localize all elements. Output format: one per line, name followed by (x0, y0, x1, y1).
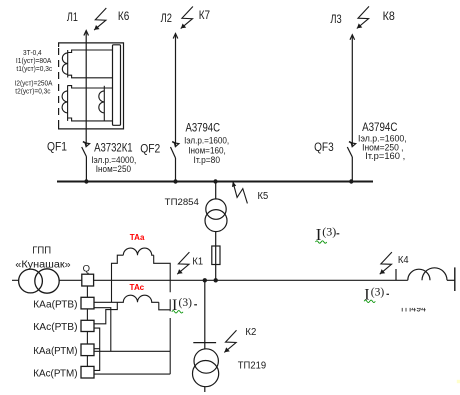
svg-text:Iэл.р.=1600,: Iэл.р.=1600, (184, 136, 229, 146)
relay box KAa(PTM) (81, 344, 94, 356)
svg-text:А3732К1: А3732К1 (94, 141, 133, 155)
CT TAa loop (112, 248, 171, 280)
upper trip element (62, 50, 112, 78)
svg-text:Л3: Л3 (330, 14, 341, 26)
svg-text:К1: К1 (192, 256, 203, 267)
vertical node wire at x=170 (169, 280, 171, 318)
wire TAa left below line (111, 280, 113, 302)
wire box1 to CT TAc (94, 301, 117, 303)
feeder line L1 (vertical with up arrow) (84, 31, 89, 147)
svg-text:I1(уст)=80А: I1(уст)=80А (16, 58, 52, 65)
end terminal bar (454, 267, 456, 291)
wire box3 to node (94, 350, 170, 352)
fault bolt K8 (357, 6, 369, 28)
line to end bar (447, 279, 455, 281)
fault current label I(3) upper (316, 225, 340, 245)
svg-text:(3): (3) (371, 286, 385, 298)
junction dot fuse tap (214, 278, 218, 282)
breaker QF1 (82, 142, 90, 182)
wire transformer to fuse (215, 232, 217, 246)
trip-unit right bar (113, 45, 121, 126)
svg-text:t1(уст)=0,3с: t1(уст)=0,3с (16, 66, 52, 73)
GPP transformer (Кунашак) (19, 269, 60, 293)
relay chain wires (86, 286, 88, 366)
top bus (57, 181, 373, 183)
svg-text:ТАс: ТАс (130, 282, 145, 292)
low-voltage main line (12, 279, 408, 281)
wire box4 to node (94, 373, 170, 375)
svg-text:Iт.р=80: Iт.р=80 (194, 155, 221, 165)
fault bolt K6 (94, 8, 106, 30)
svg-text:А3794С: А3794С (362, 122, 397, 134)
svg-text:КАс(РТВ): КАс(РТВ) (33, 322, 77, 333)
wire fuse to low-voltage line (215, 246, 217, 280)
relay box KAc(PTB) (81, 320, 94, 331)
svg-text:К8: К8 (383, 11, 395, 23)
bus junction TP2854 (213, 179, 217, 183)
transformer TP2854 (205, 199, 227, 232)
svg-text:ГПП: ГПП (32, 246, 51, 257)
fault bolt K2 (224, 330, 236, 352)
relay box KAc(PTM) (81, 366, 94, 378)
svg-text:QF2: QF2 (140, 142, 160, 156)
terminal tick before TP494 (395, 269, 397, 280)
svg-text:QF1: QF1 (47, 140, 67, 154)
lower trip element (62, 85, 112, 121)
fault current label I(3) right (364, 286, 389, 303)
breaker QF3 (347, 142, 355, 182)
bus junction QF2 (173, 179, 177, 183)
svg-text:Л1: Л1 (67, 12, 78, 24)
svg-text:QF3: QF3 (314, 140, 334, 154)
fault bolt K4 (380, 252, 392, 274)
svg-text:ТП2854: ТП2854 (165, 197, 199, 208)
transformer TP2854 drop wire (215, 182, 217, 200)
bus junction QF1 (84, 179, 88, 183)
svg-text:Iном=160,: Iном=160, (188, 145, 226, 155)
wire box1 lower stub (94, 308, 111, 352)
svg-text:КАс(РТМ): КАс(РТМ) (33, 369, 77, 380)
svg-text:КАа(РТВ): КАа(РТВ) (33, 299, 77, 310)
bus junction QF3 (349, 179, 353, 183)
svg-text:КАа(РТМ): КАа(РТМ) (33, 346, 77, 357)
fault marker crossbar (193, 342, 216, 344)
fault bolt K5 (points up to bus) (232, 182, 247, 203)
relay wiring (94, 280, 170, 374)
svg-text:Iт.р=160 ,: Iт.р=160 , (365, 151, 405, 161)
svg-text:3Т-0,4: 3Т-0,4 (23, 50, 42, 57)
svg-text:(3): (3) (179, 297, 193, 309)
fuse F1 (212, 246, 220, 265)
svg-text:ТП219: ТП219 (238, 361, 267, 372)
TP219 branch wire (204, 280, 206, 349)
breaker QF2 (171, 142, 179, 182)
junction dot TP219 tap (203, 278, 207, 282)
svg-text:Л2: Л2 (161, 13, 172, 25)
svg-text:«Кунашак»: «Кунашак» (15, 259, 71, 270)
feeder line L2 (173, 34, 178, 147)
fault bolt K7 (181, 7, 193, 29)
svg-text:К7: К7 (199, 10, 210, 22)
label ТП494 (top clipped) (390, 296, 460, 315)
fault bolt K1 (177, 252, 189, 274)
CT TAc loop (117, 295, 170, 310)
wire box2 link (94, 302, 117, 324)
wire box2-box3-box4 chain (94, 328, 100, 370)
svg-text:(3): (3) (322, 225, 336, 239)
svg-text:I2(уст)=250А: I2(уст)=250А (15, 80, 53, 87)
transformer TP219 (193, 349, 219, 387)
switch Q box (82, 274, 94, 286)
svg-text:Iном=250: Iном=250 (96, 164, 131, 174)
feeder line L3 (350, 35, 355, 146)
trip-unit box outline (59, 43, 124, 129)
yellow artifact bottom right (457, 380, 460, 383)
fault current label I(3) left (172, 297, 197, 314)
svg-text:t2(уст)=0,3с: t2(уст)=0,3с (15, 88, 51, 95)
svg-text:К6: К6 (118, 11, 129, 23)
svg-text:ТАа: ТАа (130, 232, 145, 242)
TP219 bottom stub (204, 387, 206, 392)
svg-text:К4: К4 (398, 255, 409, 266)
svg-text:А3794С: А3794С (186, 123, 221, 135)
svg-text:Q: Q (83, 263, 90, 274)
svg-text:К5: К5 (258, 191, 269, 202)
trip settings text (15, 50, 53, 95)
TP494 winding arcs (408, 268, 447, 281)
relay box KAa(PTB) (81, 297, 94, 309)
svg-text:К2: К2 (245, 327, 256, 338)
